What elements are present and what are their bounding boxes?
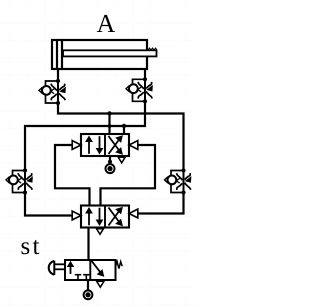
wire: stub to V2 top-right port [123, 126, 125, 135]
valve V2 (4/2 double pilot, middle) [81, 134, 129, 156]
wire: V1 supply from valve ST [87, 228, 89, 261]
cylinder A body [52, 40, 147, 69]
node: line B to valve V2 [122, 124, 126, 128]
V2 right pilot [129, 141, 138, 150]
V1 left pilot [72, 211, 81, 220]
exhaust under V1 [97, 229, 104, 235]
air source under V2 [109, 156, 111, 163]
air source under ST [87, 280, 89, 291]
wire: line B from right cylinder line across to left mid FCV [25, 102, 145, 170]
cylinder piston [56, 40, 58, 69]
wire: cylinder left port [57, 69, 59, 81]
flow control valve FC1 (top left) [39, 79, 66, 105]
spring [116, 262, 123, 269]
valve V1 (4/2 double pilot, lower) [81, 206, 129, 228]
wire: cylinder right port [144, 69, 146, 79]
node: stub crossing line B [108, 124, 112, 128]
cylinder piston rod [63, 50, 157, 56]
exhaust under V2 [118, 157, 125, 163]
flow control valve FC4 (mid right) [165, 168, 192, 194]
wire: V2 right pilot line to V1 right output [101, 145, 156, 206]
wire: V2 left pilot line to V1 left output [55, 145, 90, 206]
push button [53, 261, 55, 275]
node: line A to valve V2 [107, 111, 111, 115]
svg-text:A: A [97, 9, 116, 38]
valve ST (3/2 push button) [49, 260, 122, 280]
flow control valve FC2 (top right) [126, 77, 153, 103]
left square: flow arrow up [70, 265, 72, 275]
right square: diagonal arrow to exhaust [92, 261, 101, 273]
exhaust under ST [97, 281, 104, 287]
V2 left pilot [72, 141, 81, 150]
V1 right pilot [129, 209, 138, 218]
wire: stub to V2 top-left port [108, 114, 110, 135]
wire: line A from left cylinder line across to right mid FCV [58, 103, 184, 169]
blocked port T2 [85, 275, 87, 280]
left square: blocked port T1 [77, 275, 79, 280]
wire: FC4 to V1 right pilot [137, 193, 184, 214]
background grid [0, 0, 196, 307]
cylinder rod serration [148, 48, 157, 50]
flow control valve FC3 (mid left) [6, 168, 33, 194]
wire: FC3 to V1 left pilot [25, 193, 73, 216]
svg-text:st: st [21, 233, 40, 260]
